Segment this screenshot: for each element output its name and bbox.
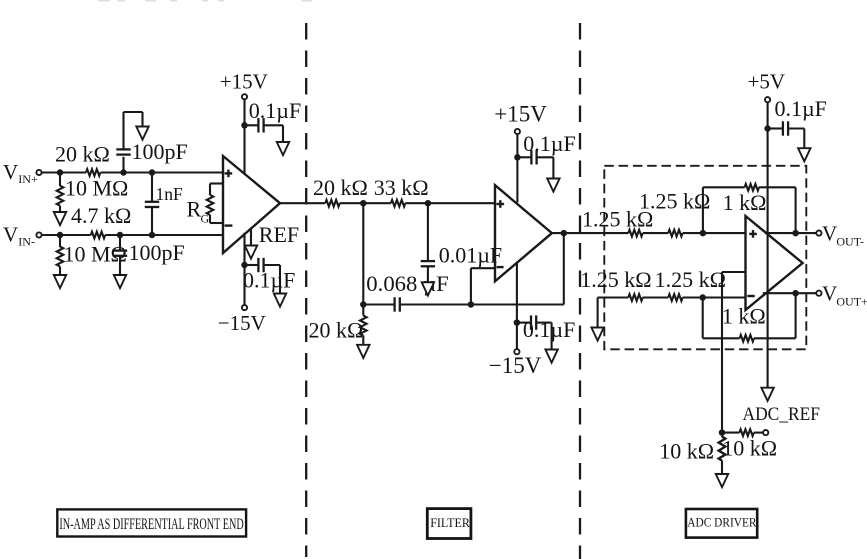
capacitor 0.1uF bypass -15V U2: [517, 315, 575, 349]
ground of bypass bottom U1: [274, 294, 286, 307]
U1 plus input mark: [225, 170, 233, 178]
capacitor 0.1uF bypass +15V U1: [245, 98, 302, 142]
terminal +5V: [765, 97, 770, 102]
resistor R1 20 kOhm: [55, 141, 110, 176]
wire VOUT- output: [765, 232, 816, 234]
supply +5V U3: [748, 70, 786, 388]
svg-text:+15V: +15V: [494, 101, 547, 126]
scan artifact marks top edge: [98, 0, 312, 2]
svg-text:IN+: IN+: [18, 172, 38, 186]
svg-text:V: V: [822, 222, 837, 246]
node junction C2 bottom: [149, 232, 156, 239]
svg-text:+15V: +15V: [220, 69, 268, 93]
svg-text:10 MΩ: 10 MΩ: [64, 242, 127, 267]
ground of bypass top U2: [547, 179, 559, 192]
pin REF U1: [251, 222, 299, 247]
op-amp U2 filter: [495, 185, 552, 281]
capacitor C3 100pF: [113, 235, 185, 275]
svg-text:0.1µF: 0.1µF: [243, 267, 295, 292]
node VIN- label: [3, 222, 35, 248]
svg-text:10 MΩ: 10 MΩ: [65, 176, 128, 201]
caption box adc driver: [686, 509, 757, 538]
svg-text:V: V: [822, 282, 837, 306]
svg-text:0.1µF: 0.1µF: [523, 131, 575, 156]
resistor R2 10 MOhm: [57, 176, 129, 213]
U3 minus input mark: [747, 295, 754, 297]
wire VIN+ rail: [42, 171, 223, 173]
capacitor C4 0.068uF: [366, 271, 449, 312]
svg-text:IN-AMP AS DIFFERENTIAL FRONT E: IN-AMP AS DIFFERENTIAL FRONT END: [59, 516, 243, 533]
node junction bypass +5V: [764, 125, 771, 132]
wire filter feedback bottom: [363, 303, 564, 305]
capacitor 0.1uF bypass -15V U1: [243, 258, 295, 294]
resistor R5 20 kOhm filter: [313, 175, 368, 206]
svg-text:1 kΩ: 1 kΩ: [723, 190, 767, 215]
svg-text:0.1µF: 0.1µF: [523, 317, 575, 342]
U3 plus input mark: [749, 230, 757, 238]
caption box in-amp: [57, 509, 246, 536]
svg-text:1.25 kΩ: 1.25 kΩ: [580, 267, 651, 292]
supply -15V U2: [489, 263, 542, 379]
svg-text:0.068 µF: 0.068 µF: [366, 271, 449, 296]
svg-text:100pF: 100pF: [129, 240, 185, 265]
U1 minus input mark: [225, 224, 233, 226]
svg-text:1nF: 1nF: [156, 184, 184, 204]
resistor R4 10 MOhm: [57, 238, 127, 275]
terminal VOUT-: [816, 231, 821, 236]
ground of bypass bottom U2: [545, 350, 557, 363]
node VOUT+ feedback junction: [792, 290, 799, 297]
supply -15V U1: [218, 233, 266, 335]
svg-text:G: G: [201, 212, 210, 226]
svg-text:10 kΩ: 10 kΩ: [722, 436, 777, 461]
wire minus input stub U2: [471, 268, 495, 304]
terminal ADC_REF: [763, 430, 768, 435]
caption box filter: [427, 509, 471, 539]
resistor R14 10 kOhm to ADC_REF: [722, 429, 777, 460]
wire VOUT+ output: [763, 292, 817, 294]
node filter A: [360, 200, 367, 207]
svg-text:ADC_REF: ADC_REF: [743, 404, 821, 425]
node junction bypass top U1: [241, 122, 248, 129]
node junction C3: [117, 232, 124, 239]
terminal +15V U1: [242, 94, 247, 99]
resistor R13 1 kOhm feedback bottom: [703, 293, 796, 341]
node VIN+ label: [3, 160, 38, 186]
node junction C1: [120, 169, 127, 176]
ground of bypass top U1: [277, 142, 289, 155]
wire U2 output to ADC driver: [552, 232, 628, 234]
svg-text:REF: REF: [259, 222, 299, 247]
svg-text:0.1µF: 0.1µF: [775, 96, 827, 121]
wire node A down: [362, 203, 364, 304]
resistor R12 1.25 kOhm: [655, 267, 726, 301]
wire U3 vocm pin: [722, 272, 746, 433]
svg-text:OUT-: OUT-: [836, 235, 864, 249]
svg-text:0.1µF: 0.1µF: [249, 98, 301, 123]
supply +15V U1: [220, 69, 268, 174]
dashed enclosure ADC driver: [604, 166, 806, 349]
svg-text:FILTER: FILTER: [430, 516, 470, 530]
svg-text:1.25 kΩ: 1.25 kΩ: [639, 189, 710, 214]
capacitor C5 0.01uF: [421, 203, 502, 282]
svg-text:10 kΩ: 10 kΩ: [659, 439, 714, 464]
wire VIN- rail: [42, 234, 223, 236]
terminal VOUT+: [816, 291, 821, 296]
capacitor C2 1nF: [145, 173, 183, 236]
op-amp U1 in-amp: [223, 156, 280, 253]
resistor R3 4.7 kOhm: [71, 203, 131, 239]
capacitor 0.1uF bypass +15V U2: [517, 131, 575, 178]
node junction VIN-/R4: [57, 232, 64, 239]
resistor R15 10 kOhm to ground: [659, 436, 725, 474]
svg-text:−15V: −15V: [218, 311, 266, 335]
ground below R15: [716, 474, 728, 487]
svg-text:100pF: 100pF: [132, 139, 188, 164]
node junction bypass bottom U1: [241, 262, 248, 269]
resistor RG gain set: [187, 184, 224, 226]
ground of C5: [422, 282, 434, 295]
resistor R7 20 kOhm to ground: [309, 308, 367, 345]
svg-text:V: V: [3, 160, 18, 184]
terminal VIN-: [36, 232, 41, 237]
svg-text:20 kΩ: 20 kΩ: [309, 317, 364, 342]
node filter C: [360, 301, 367, 308]
svg-text:4.7 kΩ: 4.7 kΩ: [71, 203, 131, 228]
svg-text:0.01µF: 0.01µF: [439, 243, 502, 268]
svg-text:IN-: IN-: [18, 235, 35, 249]
svg-text:OUT+: OUT+: [836, 295, 867, 309]
wire between R11 R12: [643, 296, 669, 298]
resistor R11 1.25 kOhm: [580, 267, 651, 301]
node filter B: [425, 200, 432, 207]
wire filter feedback vertical: [563, 233, 565, 304]
terminal VIN+: [36, 170, 41, 175]
capacitor C1 100pF: [116, 112, 187, 173]
svg-text:−15V: −15V: [489, 353, 542, 378]
node junction C2 top: [149, 169, 156, 176]
resistor R6 33 kOhm: [374, 175, 429, 206]
resistor R10 1 kOhm feedback top: [703, 184, 796, 233]
ground U3 negative supply: [761, 388, 773, 401]
op-amp U3 ADC driver: [746, 216, 803, 310]
wire R12 to U3 minus: [683, 296, 746, 298]
ground lower input: [591, 328, 603, 341]
svg-text:V: V: [3, 222, 18, 246]
svg-text:+5V: +5V: [748, 70, 786, 94]
svg-text:1.25 kΩ: 1.25 kΩ: [655, 267, 726, 292]
ground below R4: [54, 275, 66, 288]
terminal -15V U1: [242, 305, 247, 310]
ground of bypass +5V: [798, 148, 810, 161]
wire between R8 R9: [643, 232, 669, 234]
node U3 minus input: [699, 294, 706, 301]
supply +15V U2: [494, 101, 547, 202]
stage divider dashed line 1: [305, 23, 307, 557]
U2 plus input mark: [497, 200, 505, 208]
wire lower input from ground: [598, 298, 629, 328]
wire U1 output to filter: [280, 202, 495, 204]
resistor R9 1.25 kOhm: [639, 189, 710, 237]
node junction bypass bottom U2: [514, 319, 521, 326]
svg-text:ADC DRIVER: ADC DRIVER: [687, 514, 756, 529]
ground below R2: [54, 212, 66, 225]
wire R9 to U3 plus: [683, 232, 746, 234]
resistor R8 1.25 kOhm: [582, 207, 653, 237]
ground of C3: [114, 275, 126, 288]
node VOUT- label: [822, 222, 864, 249]
svg-text:R: R: [187, 197, 202, 222]
svg-text:20 kΩ: 20 kΩ: [55, 141, 110, 166]
terminal +15V U2: [515, 129, 520, 134]
node U3 plus input: [700, 230, 707, 237]
svg-text:20 kΩ: 20 kΩ: [313, 175, 368, 200]
terminal -15V U2: [514, 349, 519, 354]
capacitor 0.1uF bypass +5V: [768, 96, 827, 148]
U2 minus input mark: [497, 266, 504, 268]
ground of C1: [136, 127, 148, 140]
node VOUT+ label: [822, 282, 867, 309]
node VOUT- feedback junction: [792, 230, 799, 237]
node vocm divider junction: [719, 429, 726, 436]
svg-text:1 kΩ: 1 kΩ: [722, 303, 766, 328]
node junction VIN+/R2: [57, 169, 64, 176]
ground below R7: [357, 345, 369, 358]
node filter D: [468, 301, 475, 308]
svg-text:33 kΩ: 33 kΩ: [374, 175, 429, 200]
ground of REF: [245, 246, 257, 259]
stage divider dashed line 2: [579, 23, 581, 559]
node junction bypass top U2: [514, 154, 521, 161]
node U2 output: [561, 230, 568, 237]
